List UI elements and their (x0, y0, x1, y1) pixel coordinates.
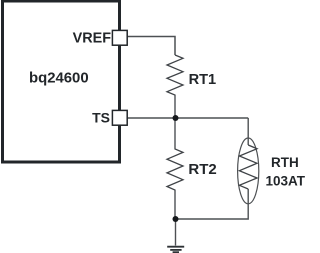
thermistor RTH ellipse (238, 138, 259, 204)
junction node bottom (173, 216, 179, 222)
svg-text:VREF: VREF (73, 30, 112, 46)
IC U1 bq24600 body (3, 1, 120, 162)
resistor RT2 (167, 118, 183, 219)
svg-text:RT1: RT1 (189, 72, 217, 88)
wire VREF pin to RT1 top (128, 37, 176, 56)
junction node TS (173, 115, 179, 121)
thermistor RTH zigzag element (239, 145, 257, 189)
wire TS net horizontal (128, 117, 249, 119)
wire bottom net to thermistor bottom (176, 189, 249, 219)
pin TS square (112, 110, 127, 125)
svg-text:RT2: RT2 (188, 161, 216, 178)
svg-text:bq24600: bq24600 (29, 71, 89, 87)
svg-text:103AT: 103AT (266, 174, 306, 189)
resistor RT1 (167, 55, 183, 118)
wire TS to thermistor top (247, 118, 249, 145)
wire bottom node to ground (175, 219, 177, 246)
svg-text:TS: TS (92, 109, 110, 125)
ground symbol (167, 247, 184, 253)
svg-text:RTH: RTH (271, 155, 299, 170)
pin VREF square (112, 30, 127, 45)
